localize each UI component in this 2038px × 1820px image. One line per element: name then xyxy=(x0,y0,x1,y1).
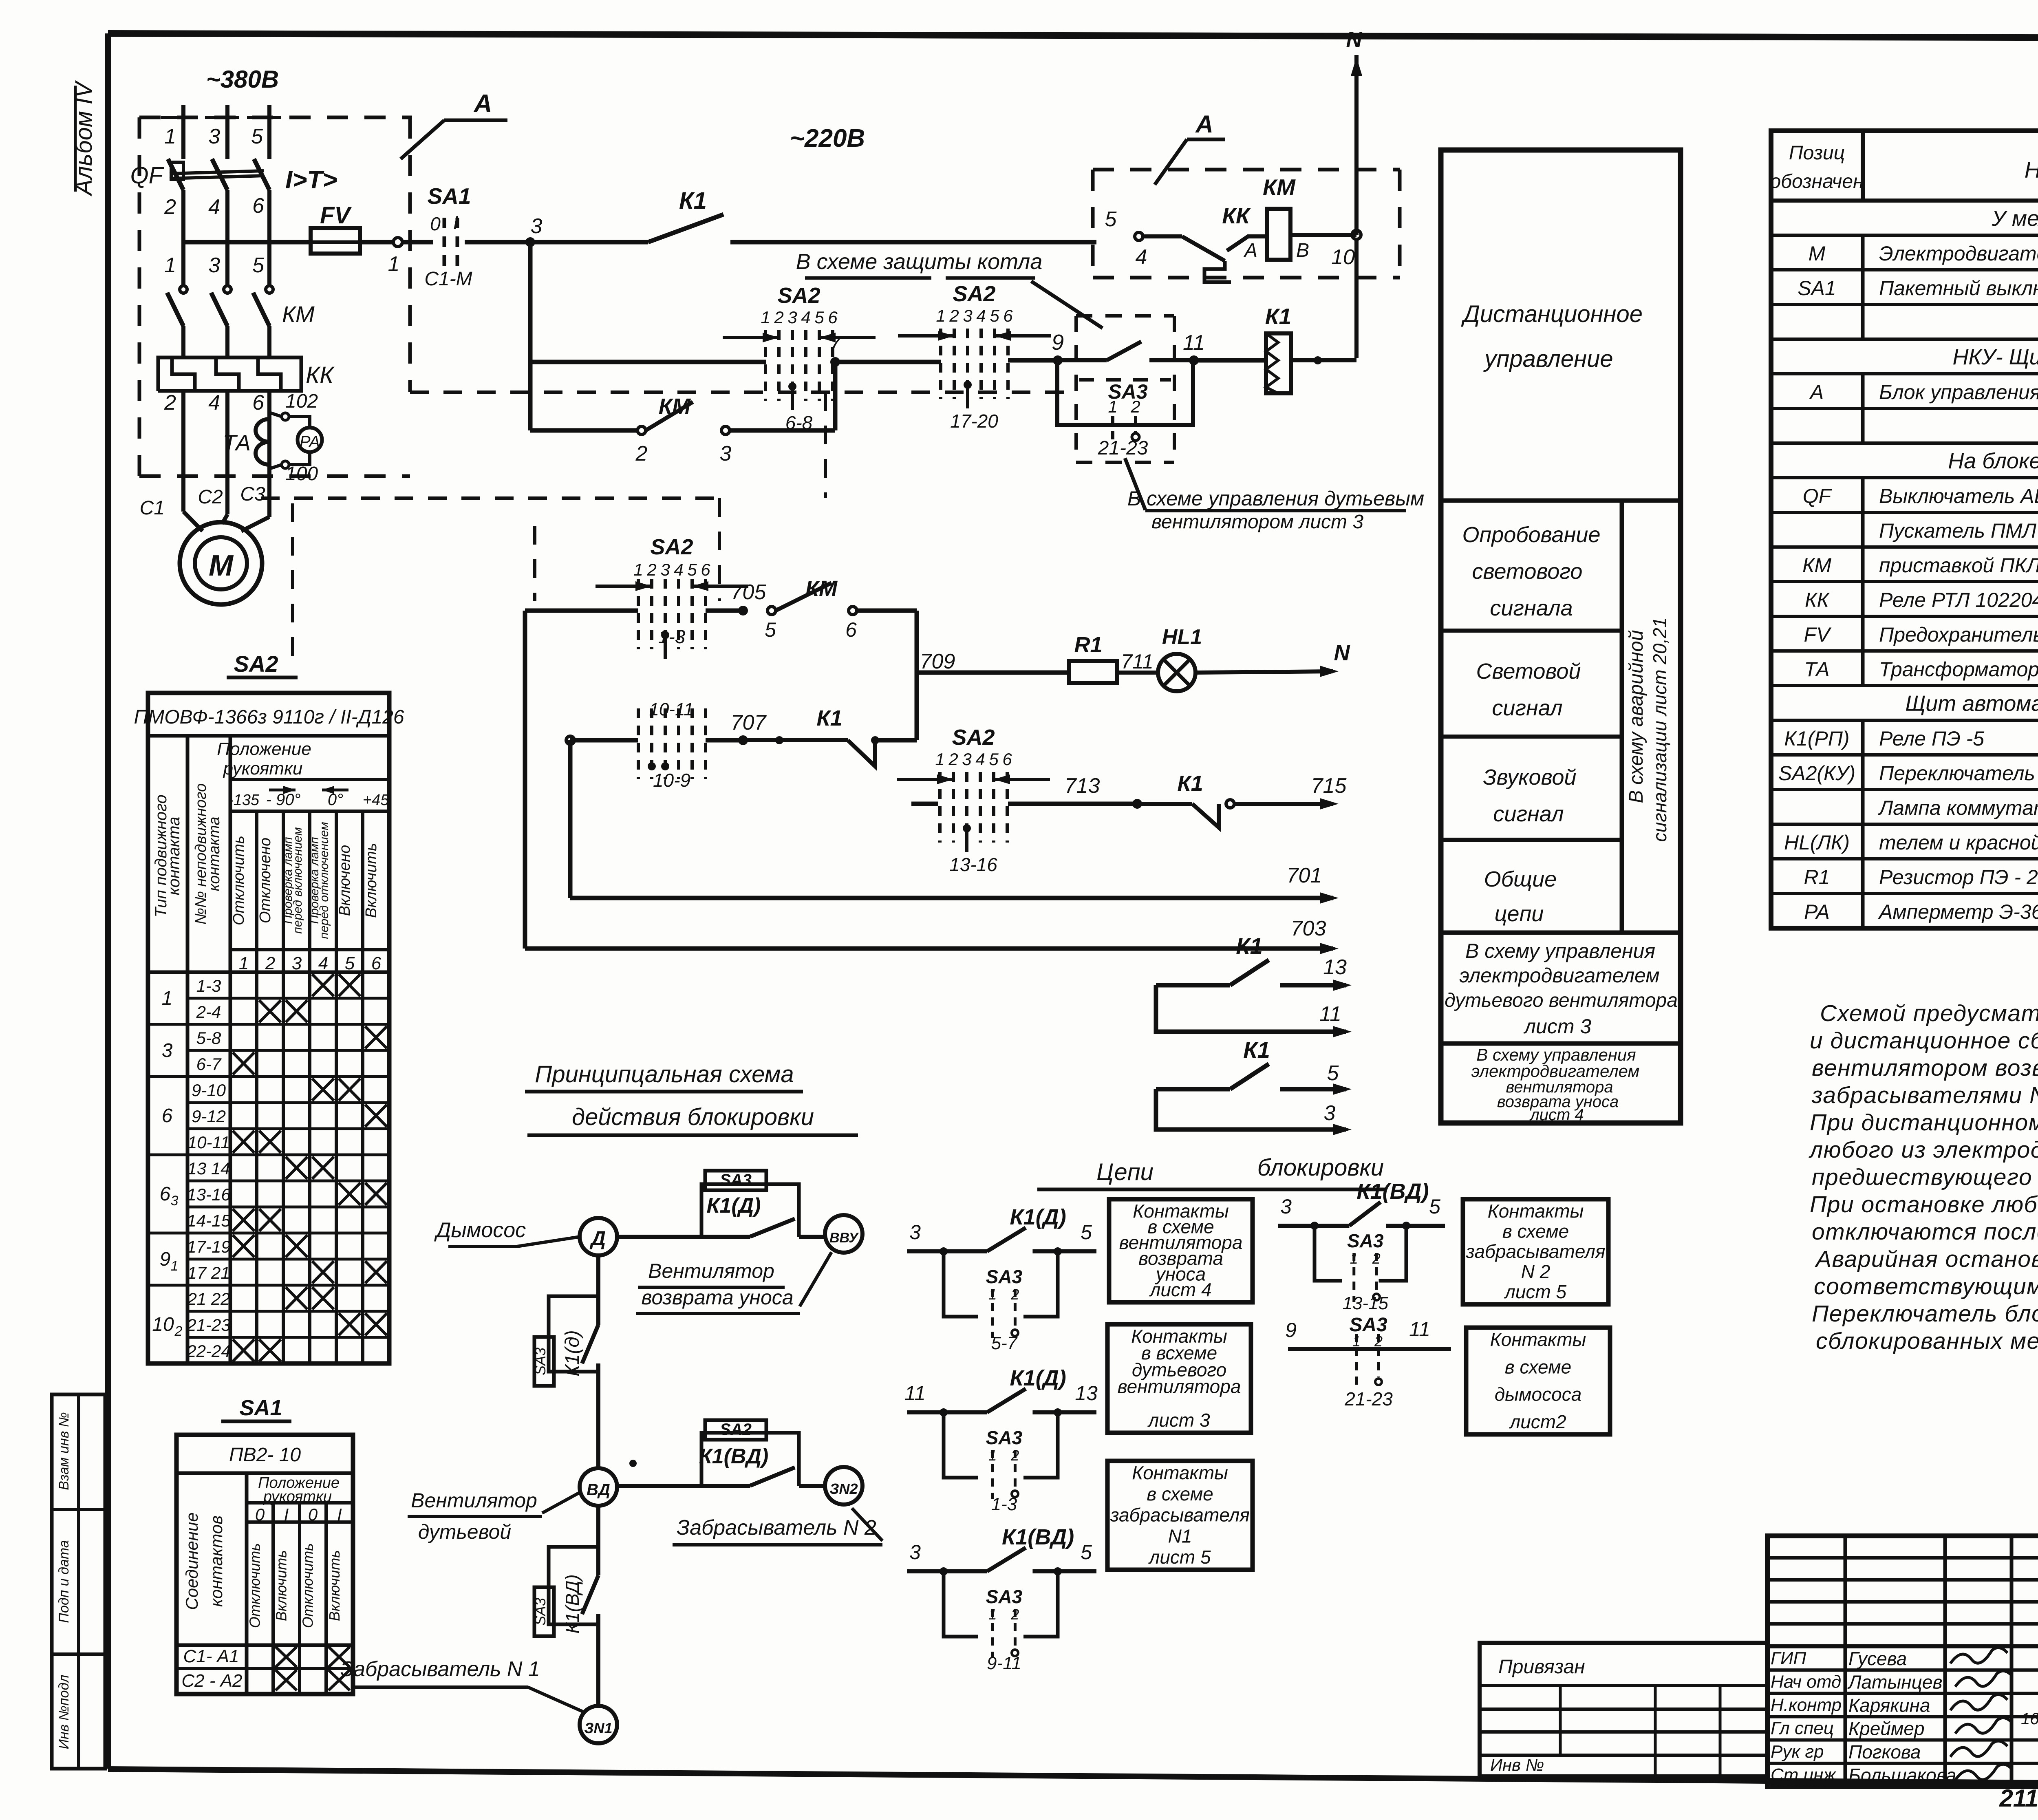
svg-text:А: А xyxy=(473,90,492,118)
svg-text:С2: С2 xyxy=(198,486,223,508)
svg-text:707: 707 xyxy=(731,711,767,735)
current transformer TA xyxy=(256,419,269,465)
svg-text:SA1: SA1 xyxy=(1798,277,1836,300)
svg-text:Выключатель АЕ 2036 - 10У: Выключатель АЕ 2036 - 10У3 xyxy=(1879,485,2038,507)
svg-text:В: В xyxy=(1296,240,1309,261)
svg-text:2: 2 xyxy=(948,750,958,769)
svg-text:FV: FV xyxy=(1804,623,1832,646)
svg-text:Отключить: Отключить xyxy=(300,1543,316,1628)
svg-text:С2 - А2: С2 - А2 xyxy=(181,1671,242,1691)
svg-text:приставкой ПКЛ 2004: приставкой ПКЛ 2004 xyxy=(1879,554,2038,577)
svg-text:9-10: 9-10 xyxy=(192,1081,226,1100)
dashed box around remote contact xyxy=(1076,314,1174,318)
svg-text:14-15: 14-15 xyxy=(187,1211,231,1230)
svg-text:3: 3 xyxy=(171,1193,179,1209)
svg-text:К1(Д): К1(Д) xyxy=(706,1194,761,1218)
svg-text:SA2: SA2 xyxy=(953,282,995,306)
svg-text:С1-М: С1-М xyxy=(424,268,472,290)
svg-text:5: 5 xyxy=(251,125,263,148)
svg-text:дутьевого вентилятора: дутьевого вентилятора xyxy=(1445,990,1678,1011)
svg-text:17 21: 17 21 xyxy=(187,1263,230,1282)
wire 701 xyxy=(568,740,573,898)
svg-text:21-23: 21-23 xyxy=(1098,437,1148,459)
svg-text:ТА: ТА xyxy=(1804,658,1829,681)
svg-text:10: 10 xyxy=(1331,245,1355,269)
svg-text:Переключатель блокировки „SA3: Переключатель блокировки „SA3" является … xyxy=(1812,1301,2038,1327)
svg-text:1: 1 xyxy=(936,306,945,325)
svg-text:Погкова: Погкова xyxy=(1848,1741,1921,1763)
svg-text:1: 1 xyxy=(633,560,643,579)
svg-text:НКУ- Щит 1(2,3,4)Щ: НКУ- Щит 1(2,3,4)Щ xyxy=(1952,345,2038,369)
svg-text:Латынцев: Латынцев xyxy=(1847,1671,1943,1692)
svg-text:709: 709 xyxy=(920,650,955,673)
svg-text:Общие: Общие xyxy=(1484,867,1557,891)
svg-text:Положение: Положение xyxy=(217,739,311,759)
svg-text:Отключить: Отключить xyxy=(230,836,247,925)
svg-text:SA3: SA3 xyxy=(986,1427,1023,1448)
svg-text:Инв №: Инв № xyxy=(1490,1755,1544,1774)
svg-text:Блок управления БОУ5130-3А74: Блок управления БОУ5130-3А74ГУХЛ4Б xyxy=(1879,381,2038,404)
svg-text:Дистанционное: Дистанционное xyxy=(1461,301,1643,327)
svg-text:А: А xyxy=(1243,240,1257,261)
svg-text:При остановке любого эл: При остановке любого электродвигателя ав… xyxy=(1810,1191,2038,1218)
svg-text:сигнал: сигнал xyxy=(1493,802,1564,826)
svg-text:КМ: КМ xyxy=(282,301,315,327)
svg-text:5: 5 xyxy=(989,750,999,769)
svg-text:Опробование: Опробование xyxy=(1462,523,1600,547)
svg-text:блокировки: блокировки xyxy=(1257,1154,1384,1181)
svg-text:4: 4 xyxy=(976,306,986,325)
svg-text:К1(ВД): К1(ВД) xyxy=(699,1445,769,1468)
svg-text:4: 4 xyxy=(1136,245,1147,269)
block A callout (right) xyxy=(1155,139,1187,185)
svg-text:10: 10 xyxy=(152,1314,174,1335)
svg-text:лист 5: лист 5 xyxy=(1504,1281,1567,1302)
svg-text:С1- А1: С1- А1 xyxy=(183,1646,239,1666)
svg-text:К1(Д): К1(Д) xyxy=(1010,1205,1066,1229)
thrower node ZN1 xyxy=(580,1706,617,1743)
bypass SA2/K1(VD) horizontal xyxy=(701,1433,799,1486)
svg-text:5: 5 xyxy=(765,618,776,641)
svg-text:КК: КК xyxy=(1805,589,1830,611)
svg-text:5: 5 xyxy=(1081,1541,1092,1564)
svg-text:С1: С1 xyxy=(140,497,165,519)
svg-text:Реле ПЭ -5: Реле ПЭ -5 xyxy=(1879,727,1984,750)
svg-text:11: 11 xyxy=(1409,1318,1430,1341)
node 11 xyxy=(1189,355,1199,365)
svg-text:М: М xyxy=(209,549,234,582)
svg-text:SA3: SA3 xyxy=(532,1348,549,1375)
svg-text:дымососа: дымососа xyxy=(1495,1384,1582,1405)
svg-text:0: 0 xyxy=(430,213,441,234)
node 1 xyxy=(393,238,402,247)
wire 713 row with SA2 and K1 xyxy=(911,802,938,806)
svg-text:13-16: 13-16 xyxy=(187,1185,231,1204)
svg-text:16:: 16: xyxy=(2021,1710,2038,1728)
svg-text:Принципцальная схема: Принципцальная схема xyxy=(535,1061,794,1088)
svg-text:К1(ВД): К1(ВД) xyxy=(1356,1179,1429,1204)
left margin stamp boxes xyxy=(52,1394,105,1769)
svg-text:Пакетный выключатель ПВ2 -: Пакетный выключатель ПВ2 - 10/У356 xyxy=(1879,277,2038,300)
bypass SA3/K1(D) top xyxy=(701,1184,799,1237)
svg-text:КМ: КМ xyxy=(805,576,838,601)
svg-text:любого из электродвигателей: любого из электродвигателей возможно лиш… xyxy=(1809,1137,2038,1163)
svg-text:SA3: SA3 xyxy=(720,1171,752,1189)
svg-text:4: 4 xyxy=(975,750,985,769)
svg-text:3: 3 xyxy=(963,306,972,325)
switch SA3 contacts 21-23 xyxy=(1057,360,1193,425)
svg-text:2: 2 xyxy=(635,442,648,465)
svg-text:в схеме: в схеме xyxy=(1502,1221,1569,1242)
svg-text:-135: -135 xyxy=(228,792,260,809)
svg-text:К1: К1 xyxy=(1236,933,1263,959)
interlock contact circuit xyxy=(907,1249,944,1253)
svg-text:10-11: 10-11 xyxy=(649,699,693,719)
svg-text:SA2(КУ): SA2(КУ) xyxy=(1778,762,1855,785)
svg-text:телем и красной линзой: телем и красной линзой КМ60-55 xyxy=(1879,831,2038,854)
svg-text:6: 6 xyxy=(828,308,838,327)
svg-text:1: 1 xyxy=(1108,397,1117,416)
svg-text:забрасывателя: забрасывателя xyxy=(1466,1241,1606,1262)
svg-text:Включено: Включено xyxy=(336,845,353,916)
svg-text:4: 4 xyxy=(674,560,683,579)
svg-text:и дистанционное сблокирован: и дистанционное сблокированное и деблоки… xyxy=(1810,1028,2038,1054)
svg-text:С3: С3 xyxy=(240,483,265,505)
interlock contact circuit xyxy=(907,1569,944,1573)
svg-text:К1: К1 xyxy=(1265,304,1291,329)
svg-text:КК: КК xyxy=(306,362,335,388)
svg-text:К1(д): К1(д) xyxy=(562,1330,583,1376)
svg-text:лист2: лист2 xyxy=(1509,1411,1566,1432)
svg-text:Забрасыватель N 1: Забрасыватель N 1 xyxy=(340,1657,540,1681)
svg-text:5: 5 xyxy=(1429,1195,1440,1218)
svg-text:6-7: 6-7 xyxy=(196,1054,222,1074)
svg-text:5: 5 xyxy=(1105,207,1117,231)
svg-text:9: 9 xyxy=(1052,330,1064,355)
resistor R1 xyxy=(1069,661,1117,683)
svg-text:N1: N1 xyxy=(1168,1525,1192,1546)
block A callout (left) xyxy=(401,120,444,159)
svg-text:1: 1 xyxy=(935,750,944,769)
svg-text:ТА: ТА xyxy=(223,430,251,455)
svg-text:1: 1 xyxy=(171,1258,179,1274)
wire phases below KK xyxy=(181,391,185,512)
svg-text:3: 3 xyxy=(787,308,797,327)
svg-text:9: 9 xyxy=(160,1249,171,1270)
interlock info box xyxy=(1466,1328,1610,1434)
svg-text:2: 2 xyxy=(646,560,656,579)
svg-text:К1: К1 xyxy=(816,706,842,730)
svg-text:На блоке управления: На блоке управления xyxy=(1948,449,2038,473)
callout line boiler protection xyxy=(1031,281,1103,328)
remote control contact in dashed box xyxy=(1062,358,1107,362)
dashed cabinet boundary xyxy=(410,390,1076,394)
svg-text:вентилятором возврата уноса: вентилятором возврата уноса, дутьевым ве… xyxy=(1812,1055,2038,1081)
callout to blower fan scheme xyxy=(1125,458,1145,510)
svg-text:лист 5: лист 5 xyxy=(1148,1546,1211,1568)
svg-text:5: 5 xyxy=(252,254,265,277)
svg-text:ПВ2- 10: ПВ2- 10 xyxy=(229,1444,301,1466)
svg-text:отключаются последующие: отключаются последующие xyxy=(1812,1219,2038,1245)
svg-text:21 22: 21 22 xyxy=(187,1289,230,1308)
fan node VVU xyxy=(825,1215,862,1253)
svg-text:РА: РА xyxy=(300,433,320,451)
svg-text:I>T>: I>T> xyxy=(285,166,337,194)
svg-text:2: 2 xyxy=(164,391,176,415)
svg-text:Карякина: Карякина xyxy=(1848,1695,1930,1716)
svg-text:К1: К1 xyxy=(679,188,707,214)
svg-text:Отключено: Отключено xyxy=(257,838,274,923)
svg-text:А: А xyxy=(1809,381,1824,404)
node 9 xyxy=(1053,355,1063,365)
svg-text:светового: светового xyxy=(1472,559,1583,584)
svg-text:Звуковой: Звуковой xyxy=(1483,765,1576,790)
svg-text:КК: КК xyxy=(1222,203,1251,228)
svg-text:6: 6 xyxy=(252,194,264,218)
svg-text:Инв №подл: Инв №подл xyxy=(56,1675,72,1749)
svg-text:SA3: SA3 xyxy=(1347,1230,1384,1251)
interlock info box xyxy=(1107,1324,1251,1433)
destination panel box xyxy=(1441,150,1681,1123)
svg-text:Предохранитель ППТ– 10У3: Предохранитель ППТ– 10У3 xyxy=(1879,623,2038,646)
svg-text:КМ: КМ xyxy=(659,394,691,419)
svg-text:10-11: 10-11 xyxy=(187,1133,230,1152)
svg-text:забрасывателями N 1 и N: забрасывателями N 1 и N 2 xyxy=(1811,1082,2038,1108)
svg-text:703: 703 xyxy=(1291,917,1326,940)
blower fan node VD xyxy=(580,1468,617,1506)
svg-text:лист 4: лист 4 xyxy=(1149,1279,1211,1300)
svg-text:11: 11 xyxy=(1319,1002,1341,1026)
svg-text:Аварийная остановка электр: Аварийная остановка электродвигателей си… xyxy=(1815,1246,2038,1272)
svg-text:N 2: N 2 xyxy=(1521,1261,1551,1282)
svg-text:711: 711 xyxy=(1121,650,1154,673)
interlock info box xyxy=(1463,1199,1608,1304)
svg-text:5: 5 xyxy=(990,306,999,325)
phase top tick 3 xyxy=(247,116,281,119)
svg-text:Н.контр: Н.контр xyxy=(1771,1695,1842,1715)
svg-text:контакта: контакта xyxy=(206,816,223,891)
svg-text:Схемой предусматривается д: Схемой предусматривается дистанционное у… xyxy=(1820,1000,2038,1026)
svg-text:1: 1 xyxy=(761,308,770,327)
svg-text:11: 11 xyxy=(904,1382,926,1405)
svg-text:713: 713 xyxy=(1065,774,1100,798)
svg-text:лист 3: лист 3 xyxy=(1523,1015,1592,1038)
svg-text:соответствующими световым: соответствующими световым и звуковым сиг… xyxy=(1814,1273,2038,1299)
component table xyxy=(1771,131,2038,928)
bypass SA3/K1(d) vertical 1 xyxy=(549,1296,598,1372)
svg-text:К1: К1 xyxy=(1243,1037,1270,1063)
svg-text:102: 102 xyxy=(285,390,318,412)
svg-text:К1(ВД): К1(ВД) xyxy=(1002,1525,1074,1549)
svg-text:сигнал: сигнал xyxy=(1492,696,1562,720)
inner dashed box SA3 xyxy=(1079,378,1171,382)
svg-text:Рук гр: Рук гр xyxy=(1771,1742,1824,1762)
svg-text:2-4: 2-4 xyxy=(196,1002,221,1021)
svg-text:10-9: 10-9 xyxy=(653,770,690,791)
svg-text:электродвигателем: электродвигателем xyxy=(1471,1061,1640,1081)
svg-text:5: 5 xyxy=(1081,1221,1092,1244)
svg-text:обозначен: обозначен xyxy=(1770,171,1864,192)
svg-text:3: 3 xyxy=(531,214,543,238)
svg-text:Отключить: Отключить xyxy=(247,1543,263,1628)
svg-text:К1(ВД): К1(ВД) xyxy=(562,1574,583,1633)
svg-text:Включить: Включить xyxy=(273,1550,290,1621)
svg-text:Контакты: Контакты xyxy=(1490,1329,1586,1350)
svg-text:У механизма: У механизма xyxy=(1992,206,2038,231)
svg-text:1: 1 xyxy=(164,125,176,148)
svg-text:Привязан: Привязан xyxy=(1498,1656,1585,1678)
fuse FV xyxy=(311,228,360,254)
wire main control row xyxy=(183,240,311,245)
svg-text:2: 2 xyxy=(174,1324,183,1339)
svg-text:Вентилятор: Вентилятор xyxy=(411,1489,537,1512)
svg-text:перед включением: перед включением xyxy=(291,827,304,933)
svg-text:5-7: 5-7 xyxy=(991,1333,1018,1353)
interlock info box xyxy=(1109,1199,1253,1302)
svg-text:рукоятки: рукоятки xyxy=(223,759,303,779)
svg-text:действия блокировки: действия блокировки xyxy=(572,1104,814,1130)
svg-text:SA2: SA2 xyxy=(777,283,820,308)
svg-text:SA3: SA3 xyxy=(986,1586,1023,1607)
svg-text:2: 2 xyxy=(164,195,176,219)
svg-text:забрасывателя: забрасывателя xyxy=(1110,1505,1250,1526)
sheet border frame xyxy=(108,33,2038,39)
svg-text:5: 5 xyxy=(687,560,697,579)
svg-text:ВВУ: ВВУ xyxy=(829,1230,859,1246)
wire KM bypass row xyxy=(833,362,838,430)
svg-text:3: 3 xyxy=(1280,1195,1292,1218)
svg-text:21-23: 21-23 xyxy=(186,1315,230,1335)
wire row 7-9-11 xyxy=(528,242,533,430)
svg-text:SA2: SA2 xyxy=(720,1421,752,1438)
svg-text:Соединение: Соединение xyxy=(182,1512,201,1610)
svg-text:в схеме: в схеме xyxy=(1147,1483,1213,1505)
svg-text:11: 11 xyxy=(1183,331,1205,355)
svg-text:6: 6 xyxy=(252,391,264,415)
svg-text:КМ: КМ xyxy=(1802,554,1831,577)
svg-text:~220В: ~220В xyxy=(790,124,865,152)
wire phase mid sections xyxy=(181,190,185,285)
svg-text:22-24: 22-24 xyxy=(186,1341,230,1361)
svg-text:РА: РА xyxy=(1804,900,1830,923)
svg-text:4: 4 xyxy=(801,308,810,327)
svg-text:В схему аварийной: В схему аварийной xyxy=(1626,630,1647,803)
svg-text:SA2: SA2 xyxy=(650,535,693,559)
svg-text:вентилятором лист 3: вентилятором лист 3 xyxy=(1151,511,1363,533)
svg-text:М: М xyxy=(1809,242,1826,265)
svg-text:N: N xyxy=(1334,641,1350,665)
title block xyxy=(1767,1536,2038,1787)
svg-text:0°: 0° xyxy=(328,791,343,809)
svg-text:электродвигателем: электродвигателем xyxy=(1459,964,1659,987)
svg-text:Гусева: Гусева xyxy=(1848,1648,1907,1669)
svg-text:6: 6 xyxy=(845,618,857,641)
svg-text:SA2: SA2 xyxy=(952,725,995,750)
svg-text:7: 7 xyxy=(829,332,842,355)
svg-text:Гл спец: Гл спец xyxy=(1771,1719,1834,1738)
svg-text:3: 3 xyxy=(962,750,971,769)
svg-text:3: 3 xyxy=(720,442,732,465)
svg-text:лист 3: лист 3 xyxy=(1147,1410,1210,1431)
svg-text:SA3: SA3 xyxy=(532,1598,549,1626)
svg-text:QF: QF xyxy=(130,162,164,189)
svg-text:9: 9 xyxy=(1285,1319,1297,1341)
svg-text:Амперметр Э-365: Амперметр Э-365 xyxy=(1878,900,2038,923)
svg-text:6: 6 xyxy=(162,1105,173,1127)
svg-text:17-19: 17-19 xyxy=(187,1237,230,1256)
svg-text:SA1: SA1 xyxy=(239,1396,282,1420)
svg-text:1: 1 xyxy=(164,254,176,277)
svg-text:3: 3 xyxy=(208,125,220,148)
svg-text:цепи: цепи xyxy=(1495,902,1544,926)
interlock SA3 direct circuit 9-11 xyxy=(1288,1347,1451,1351)
svg-text:возврата уноса: возврата уноса xyxy=(641,1286,793,1309)
lamp HL1 xyxy=(1158,654,1195,691)
svg-text:FV: FV xyxy=(320,202,352,229)
svg-text:В схеме управления дутьевым: В схеме управления дутьевым xyxy=(1127,487,1424,510)
node 10 xyxy=(1352,230,1361,239)
svg-text:сблокированных механизмо: сблокированных механизмов котлоагрегата xyxy=(1816,1328,2038,1354)
svg-text:ВД: ВД xyxy=(587,1481,610,1499)
svg-text:1-3: 1-3 xyxy=(991,1494,1017,1514)
contact K1 rows 13/11 xyxy=(1156,983,1230,988)
svg-text:+45: +45 xyxy=(363,792,389,809)
svg-text:3: 3 xyxy=(660,560,670,579)
interlock contact circuit xyxy=(1278,1224,1315,1228)
block A dashed outline (left) xyxy=(139,116,412,119)
svg-text:Большакова: Большакова xyxy=(1848,1765,1956,1786)
svg-text:В схему управления: В схему управления xyxy=(1465,940,1655,962)
svg-text:4: 4 xyxy=(208,391,220,415)
svg-text:К1: К1 xyxy=(1177,771,1203,796)
svg-text:3: 3 xyxy=(162,1040,173,1061)
svg-text:1-3: 1-3 xyxy=(196,976,221,995)
interlock info box xyxy=(1107,1461,1253,1570)
svg-text:К1(РП): К1(РП) xyxy=(1784,727,1849,750)
svg-text:Пускатель ПМЛ 210004Б: Пускатель ПМЛ 210004Б с xyxy=(1879,519,2038,542)
svg-text:Контакты: Контакты xyxy=(1132,1462,1228,1483)
svg-text:2: 2 xyxy=(1130,397,1140,416)
svg-text:Включить: Включить xyxy=(363,843,380,918)
svg-text:Забрасыватель N 2: Забрасыватель N 2 xyxy=(677,1516,876,1540)
svg-text:6: 6 xyxy=(701,560,710,579)
svg-text:Переключатель ПМОВФ -1366з: Переключатель ПМОВФ -1366з9110г/II-Д126 xyxy=(1879,762,2038,785)
svg-text:5-8: 5-8 xyxy=(196,1028,221,1048)
wire phase L1 xyxy=(181,105,185,159)
svg-text:N: N xyxy=(1346,27,1363,52)
svg-text:контакта: контакта xyxy=(165,817,183,896)
svg-text:6: 6 xyxy=(1002,750,1012,769)
svg-text:дутьевой: дутьевой xyxy=(418,1520,511,1543)
svg-text:Лампа коммутаторная с ла: Лампа коммутаторная с ламподержа- xyxy=(1878,796,2038,819)
svg-text:Наименование: Наименование xyxy=(2025,157,2038,183)
svg-text:Реле РТЛ 102204: Реле РТЛ 102204 xyxy=(1879,589,2038,611)
phase top tick 2 xyxy=(205,116,239,119)
svg-text:ЗN2: ЗN2 xyxy=(829,1480,858,1497)
svg-text:Ст инж: Ст инж xyxy=(1771,1765,1836,1785)
svg-text:предшествующего по схеме: предшествующего по схеме блокировке элек… xyxy=(1812,1164,2038,1190)
thrower node ZN2 xyxy=(825,1467,862,1505)
svg-text:Световой: Световой xyxy=(1476,659,1581,684)
svg-text:HL1: HL1 xyxy=(1162,625,1202,649)
wire 709 branch xyxy=(915,611,919,673)
svg-text:9-11: 9-11 xyxy=(987,1653,1021,1673)
svg-text:3: 3 xyxy=(909,1221,921,1244)
thermal relay KK heaters xyxy=(158,357,301,391)
phase top tick 1 xyxy=(161,116,195,119)
wire 705 row with SA2 and KM aux xyxy=(525,609,638,613)
relay coil K1 xyxy=(1266,333,1291,393)
